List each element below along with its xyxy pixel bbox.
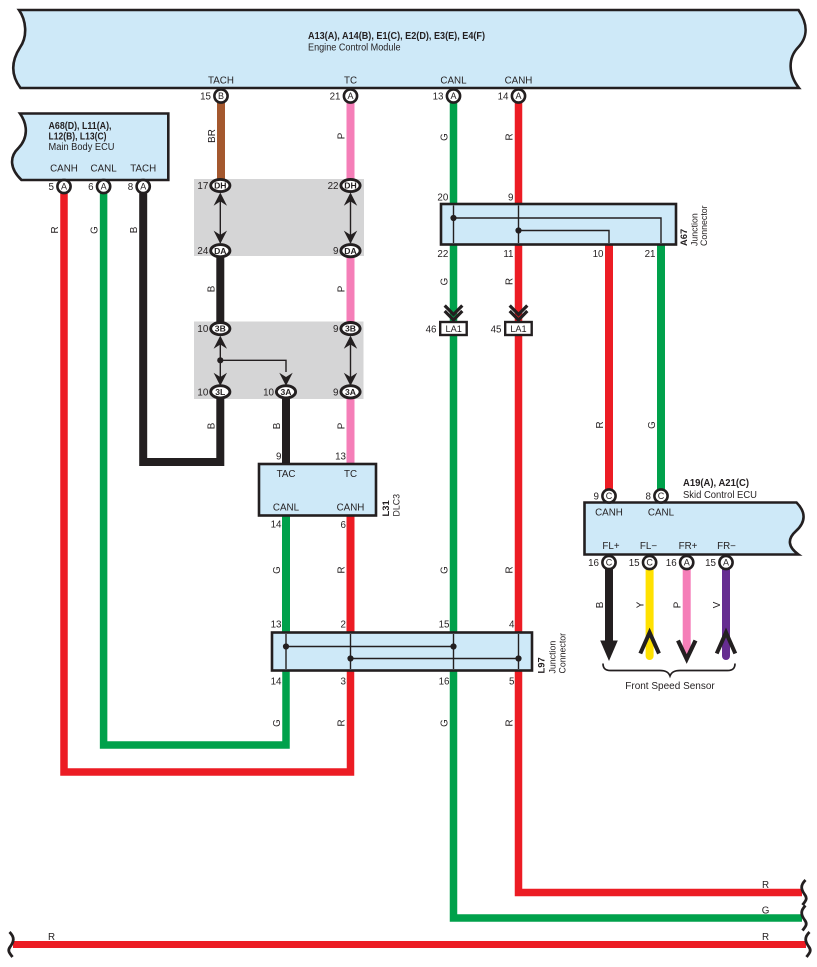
svg-text:10: 10 [197, 324, 208, 335]
svg-text:3A: 3A [281, 387, 292, 397]
svg-text:CANH: CANH [505, 76, 533, 87]
svg-text:4: 4 [509, 620, 515, 631]
svg-text:14: 14 [271, 520, 282, 531]
svg-text:B: B [595, 601, 606, 608]
svg-text:BR: BR [207, 129, 218, 143]
svg-text:A: A [101, 182, 107, 192]
svg-text:8: 8 [646, 492, 652, 503]
svg-text:A19(A), A21(C): A19(A), A21(C) [683, 478, 749, 489]
svg-text:CANL: CANL [440, 76, 467, 87]
svg-text:LA1: LA1 [510, 324, 526, 334]
svg-text:A68(D), L11(A),: A68(D), L11(A), [49, 121, 112, 132]
svg-text:TC: TC [344, 76, 357, 87]
svg-text:16: 16 [588, 558, 599, 569]
svg-text:5: 5 [509, 677, 515, 688]
svg-text:L97: L97 [536, 657, 547, 673]
svg-text:13: 13 [335, 452, 346, 463]
svg-text:R: R [337, 566, 348, 573]
svg-text:9: 9 [333, 387, 338, 398]
svg-text:46: 46 [426, 325, 437, 336]
svg-text:G: G [762, 906, 770, 917]
svg-text:P: P [337, 422, 348, 429]
svg-text:CANL: CANL [273, 503, 300, 514]
svg-text:8: 8 [128, 182, 134, 193]
svg-text:Y: Y [636, 601, 647, 608]
svg-text:A: A [450, 91, 456, 101]
svg-text:TAC: TAC [277, 469, 296, 480]
svg-text:A: A [684, 558, 690, 568]
svg-text:CANH: CANH [337, 503, 365, 514]
svg-text:R: R [48, 932, 55, 943]
svg-text:B: B [272, 422, 283, 429]
svg-text:FR+: FR+ [679, 541, 698, 552]
svg-text:R: R [595, 421, 606, 428]
svg-text:L12(B), L13(C): L12(B), L13(C) [49, 132, 107, 143]
svg-text:P: P [337, 132, 348, 139]
svg-text:G: G [272, 566, 283, 574]
svg-text:Main Body ECU: Main Body ECU [49, 142, 115, 153]
svg-text:A: A [347, 91, 353, 101]
svg-text:Front Speed Sensor: Front Speed Sensor [625, 681, 715, 692]
svg-text:R: R [505, 566, 516, 573]
svg-text:15: 15 [439, 620, 450, 631]
svg-text:DLC3: DLC3 [392, 494, 402, 517]
svg-text:R: R [762, 880, 769, 891]
svg-text:10: 10 [197, 387, 208, 398]
svg-text:3B: 3B [345, 324, 356, 334]
svg-text:CANL: CANL [91, 164, 118, 175]
svg-text:B: B [129, 226, 140, 233]
svg-text:LA1: LA1 [446, 324, 462, 334]
svg-text:A67: A67 [678, 229, 689, 246]
svg-text:P: P [673, 601, 684, 608]
svg-text:R: R [505, 133, 516, 140]
svg-text:FL−: FL− [640, 541, 657, 552]
svg-text:CANL: CANL [648, 508, 675, 519]
svg-text:6: 6 [88, 182, 94, 193]
svg-text:A: A [140, 182, 146, 192]
svg-text:R: R [337, 719, 348, 726]
svg-text:15: 15 [705, 558, 716, 569]
svg-text:Connector: Connector [558, 633, 568, 674]
svg-text:G: G [440, 133, 451, 141]
svg-text:15: 15 [200, 92, 211, 103]
svg-text:22: 22 [328, 181, 339, 192]
svg-text:DH: DH [214, 181, 226, 191]
svg-text:17: 17 [197, 181, 208, 192]
svg-text:5: 5 [49, 182, 55, 193]
svg-text:21: 21 [330, 92, 341, 103]
svg-text:6: 6 [341, 520, 347, 531]
svg-text:16: 16 [439, 677, 450, 688]
svg-text:9: 9 [594, 492, 599, 503]
svg-text:9: 9 [333, 324, 338, 335]
svg-text:G: G [440, 278, 451, 286]
svg-text:G: G [647, 421, 658, 429]
svg-text:Junction: Junction [690, 213, 700, 246]
svg-text:C: C [606, 558, 613, 568]
svg-text:11: 11 [503, 249, 513, 260]
svg-text:21: 21 [645, 249, 656, 260]
svg-text:A: A [723, 558, 729, 568]
svg-text:2: 2 [341, 620, 346, 631]
svg-text:CANH: CANH [50, 164, 78, 175]
svg-text:3L: 3L [215, 387, 225, 397]
svg-text:Connector: Connector [699, 205, 709, 246]
svg-text:L31: L31 [380, 500, 391, 516]
svg-text:R: R [50, 226, 61, 233]
svg-text:A13(A), A14(B), E1(C), E2(D),: A13(A), A14(B), E1(C), E2(D), E3(E), E4(… [308, 31, 485, 42]
svg-text:Skid Control ECU: Skid Control ECU [683, 490, 757, 501]
svg-text:A: A [61, 182, 67, 192]
svg-text:R: R [505, 719, 516, 726]
svg-text:10: 10 [593, 249, 604, 260]
svg-text:C: C [646, 558, 653, 568]
svg-text:B: B [206, 422, 217, 429]
svg-text:20: 20 [437, 193, 448, 204]
svg-text:Engine Control Module: Engine Control Module [308, 43, 401, 54]
svg-text:3A: 3A [345, 387, 356, 397]
svg-text:DA: DA [344, 246, 356, 256]
svg-text:3: 3 [341, 677, 347, 688]
svg-text:TACH: TACH [130, 164, 156, 175]
svg-text:A: A [515, 91, 521, 101]
svg-text:13: 13 [433, 92, 444, 103]
svg-text:13: 13 [271, 620, 282, 631]
svg-text:24: 24 [197, 246, 208, 257]
svg-text:9: 9 [333, 246, 338, 257]
svg-text:22: 22 [437, 249, 448, 260]
svg-text:B: B [218, 91, 224, 101]
svg-text:FR−: FR− [717, 541, 736, 552]
svg-text:P: P [337, 285, 348, 292]
svg-text:G: G [440, 566, 451, 574]
svg-text:15: 15 [629, 558, 640, 569]
svg-text:3B: 3B [215, 324, 226, 334]
svg-text:G: G [272, 719, 283, 727]
svg-text:9: 9 [508, 193, 513, 204]
svg-text:DH: DH [344, 181, 356, 191]
svg-text:C: C [658, 491, 665, 501]
svg-text:DA: DA [214, 246, 226, 256]
svg-text:9: 9 [276, 452, 281, 463]
svg-text:G: G [440, 719, 451, 727]
svg-text:C: C [606, 491, 613, 501]
svg-text:G: G [90, 226, 101, 234]
svg-text:TACH: TACH [208, 76, 234, 87]
svg-text:14: 14 [498, 92, 509, 103]
svg-text:TC: TC [344, 469, 357, 480]
svg-text:V: V [712, 601, 723, 608]
svg-text:14: 14 [271, 677, 282, 688]
svg-text:R: R [762, 932, 769, 943]
svg-text:45: 45 [491, 325, 502, 336]
svg-text:R: R [505, 278, 516, 285]
svg-text:B: B [206, 285, 217, 292]
svg-text:FL+: FL+ [602, 541, 619, 552]
svg-text:CANH: CANH [595, 508, 623, 519]
svg-text:Junction: Junction [548, 641, 558, 674]
svg-text:10: 10 [263, 387, 274, 398]
svg-text:16: 16 [666, 558, 677, 569]
